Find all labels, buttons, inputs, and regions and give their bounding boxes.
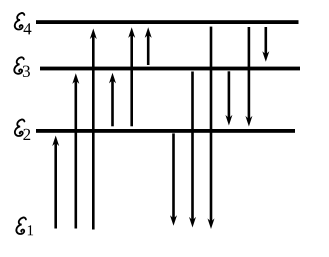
down arrow D3 E4 to E1 <box>208 27 215 229</box>
label E2 <box>15 119 30 140</box>
down arrow D6 E4 to E3 <box>262 27 269 62</box>
up arrow A6 E3 to E4 <box>145 27 152 65</box>
energy level line E2 <box>36 129 295 133</box>
label E1 <box>16 217 33 235</box>
down arrow D2 E3 to E1 <box>189 72 196 228</box>
up arrow A4 E2 to E3 <box>109 73 116 127</box>
energy level line E3 <box>40 67 300 71</box>
up arrow A2 E1 to E3 <box>72 73 79 228</box>
label E4 <box>15 13 32 34</box>
up arrow A1 E1 to E2 <box>52 136 59 229</box>
down arrow D5 E4 to E2 <box>245 27 252 127</box>
up arrow A3 E1 to E4 <box>90 29 97 230</box>
label E3 <box>14 57 30 77</box>
energy level line E4 <box>36 20 299 24</box>
down arrow D1 E2 to E1 <box>170 133 177 225</box>
down arrow D4 E3 to E2 <box>225 71 232 125</box>
up arrow A5 E2 to E4 <box>128 27 135 126</box>
